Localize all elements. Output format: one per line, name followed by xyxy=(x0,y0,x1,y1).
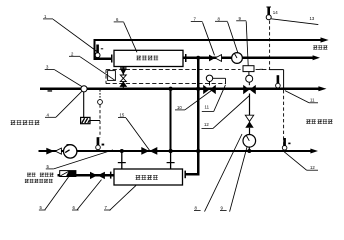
pump PU1 on pipe P2 xyxy=(232,53,243,64)
dashed sensor line V9 xyxy=(269,21,271,70)
leader label 6 xyxy=(114,17,137,52)
svg-text:12: 12 xyxy=(204,122,209,127)
svg-text:11: 11 xyxy=(310,97,315,102)
dashed control line bottom xyxy=(106,83,226,85)
thermometer T2 on pipe P4 left xyxy=(96,137,105,150)
controller box D2 xyxy=(81,117,100,123)
pipe P2 chilled water supply xyxy=(183,54,320,62)
svg-text:14: 14 xyxy=(273,10,278,15)
text makeup device line2 xyxy=(25,179,53,183)
leader label 9b bottom xyxy=(220,147,247,212)
vertical pipe V2 xyxy=(197,58,199,151)
riser stub V6 to storage tank xyxy=(167,151,175,169)
junction circle J1 on pipe P3 xyxy=(81,86,87,92)
leader label 12 xyxy=(202,96,250,129)
leader label 7 xyxy=(191,17,215,56)
pump PU2 on pipe P4 left xyxy=(63,145,76,158)
leader label 5 xyxy=(46,150,113,169)
thermometer T3 top right xyxy=(266,7,278,20)
text controller left xyxy=(11,120,40,125)
leader label 3 xyxy=(45,65,82,87)
pipe P1 left riser and chiller connector xyxy=(93,39,111,63)
sensor drop V7 to controller xyxy=(83,92,85,118)
gauge stub and circle under pipe P3 xyxy=(98,90,103,104)
storage tank box U2 xyxy=(114,169,183,185)
leader label 13 top right xyxy=(271,16,318,24)
leader label 2 xyxy=(69,51,116,80)
pipe P3 main return header xyxy=(40,86,327,91)
text chilled water return right xyxy=(306,119,332,124)
svg-text:13: 13 xyxy=(310,16,315,21)
control link corner xyxy=(260,69,284,88)
vertical pipe V1 xyxy=(170,89,172,151)
svg-text:12: 12 xyxy=(310,165,315,170)
flange F2 right of tank box xyxy=(184,171,186,179)
leader label 6b bottom xyxy=(72,180,102,211)
leader label 8 xyxy=(215,16,238,53)
leader label 15 mid left xyxy=(118,113,150,151)
leader label 12r right of P4 xyxy=(284,152,318,170)
branch V4 with valves and pump xyxy=(243,94,256,152)
expansion tank TK1 xyxy=(60,171,76,177)
riser stub V5 to storage tank xyxy=(118,151,126,169)
svg-text:11: 11 xyxy=(205,105,210,110)
pipe P4 bottom header xyxy=(39,149,319,154)
dashed sensor line V8 xyxy=(99,105,101,138)
junction nodes xyxy=(120,56,252,153)
leader label 7b bottom xyxy=(104,185,136,210)
text makeup device line1 xyxy=(27,173,54,177)
svg-text:10: 10 xyxy=(177,105,182,110)
motorized valve MV1 on pipe P3 xyxy=(203,75,225,94)
thermometer T1 on connector xyxy=(95,45,103,58)
sensor square S1 left of valve V3 xyxy=(108,71,116,81)
dashed sensor line V10 xyxy=(283,90,285,148)
text cooling tower out xyxy=(313,45,327,49)
check valve CV1 on pipe P4 left xyxy=(46,148,61,155)
leader label 4 xyxy=(45,91,82,117)
valve GV2 on pipe P5 xyxy=(90,172,105,179)
motorized valve MV2 on pipe P3 xyxy=(243,72,256,95)
pipe P1 condenser water out (top) xyxy=(94,37,329,42)
dashed control line left edge xyxy=(105,70,107,84)
leader label 10 xyxy=(175,89,213,110)
controller device box D1 on control line xyxy=(243,66,254,72)
leader label 11 xyxy=(202,85,226,112)
thermowell T4 on pipe P3 xyxy=(276,75,281,88)
makeup water pipe P5 xyxy=(58,152,200,175)
svg-text:15: 15 xyxy=(120,113,125,118)
leader label 11r right of P3 xyxy=(285,91,318,103)
leader label 8b bottom xyxy=(194,134,242,212)
chiller unit box U1 xyxy=(114,50,183,66)
gate valve GV1 on pipe P4 middle xyxy=(141,147,157,155)
leader label 1 xyxy=(43,14,97,52)
leader label 9 xyxy=(236,16,248,66)
bypass control valve V3 under chiller xyxy=(119,67,127,88)
leader label 5b bottom xyxy=(39,177,69,210)
valve VA on pipe P2 xyxy=(209,55,222,62)
flange F1 on pipe P5 xyxy=(110,172,112,179)
dashed control line top xyxy=(106,69,270,71)
thermowell T5 on pipe P4 xyxy=(282,138,290,150)
